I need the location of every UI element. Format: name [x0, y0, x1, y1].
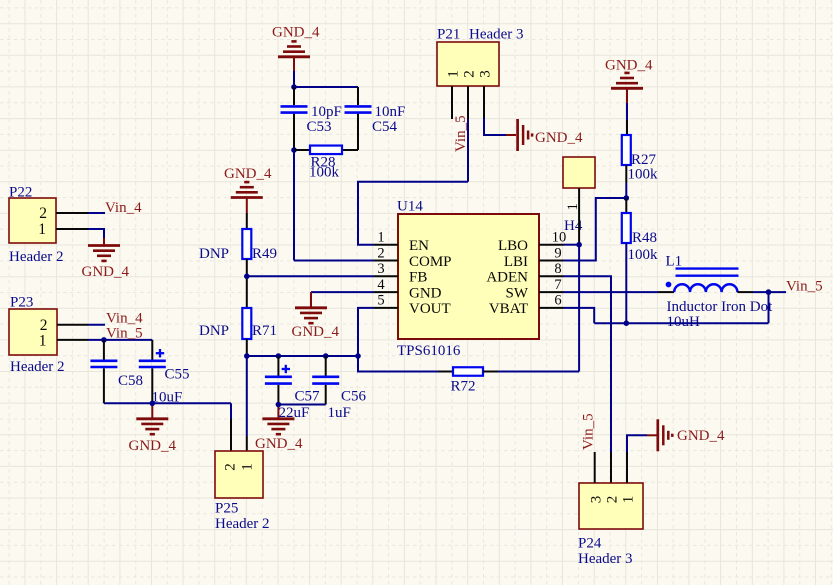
svg-text:1: 1 — [39, 333, 47, 350]
svg-text:100k: 100k — [628, 247, 659, 263]
svg-text:TPS61016: TPS61016 — [397, 343, 461, 359]
svg-text:C53: C53 — [307, 119, 332, 135]
svg-text:GND_4: GND_4 — [677, 428, 725, 444]
svg-text:FB: FB — [409, 270, 427, 286]
svg-text:1: 1 — [377, 230, 384, 246]
svg-text:C58: C58 — [118, 373, 143, 389]
svg-text:3: 3 — [588, 496, 604, 504]
svg-text:DNP: DNP — [199, 246, 229, 262]
svg-text:P25: P25 — [215, 500, 238, 516]
svg-text:8: 8 — [554, 261, 561, 277]
svg-text:GND_4: GND_4 — [292, 324, 340, 340]
svg-text:2: 2 — [39, 205, 47, 222]
svg-text:R72: R72 — [451, 378, 476, 394]
svg-text:1: 1 — [38, 221, 46, 238]
svg-text:Header 3: Header 3 — [578, 551, 633, 567]
svg-text:6: 6 — [554, 293, 561, 309]
svg-text:P21: P21 — [437, 27, 460, 43]
svg-text:Header 3: Header 3 — [469, 27, 524, 43]
svg-text:COMP: COMP — [409, 254, 452, 270]
svg-text:22uF: 22uF — [279, 405, 310, 421]
svg-text:2: 2 — [377, 245, 384, 261]
svg-text:GND_4: GND_4 — [224, 166, 272, 182]
svg-text:Vin_4: Vin_4 — [105, 200, 142, 216]
svg-text:C57: C57 — [295, 388, 321, 404]
svg-text:1: 1 — [621, 496, 637, 504]
svg-text:2: 2 — [462, 70, 478, 78]
svg-text:1: 1 — [240, 463, 256, 471]
svg-text:C54: C54 — [372, 119, 398, 135]
svg-text:DNP: DNP — [199, 323, 229, 339]
svg-text:Vin_5: Vin_5 — [786, 278, 823, 294]
svg-text:C55: C55 — [165, 366, 190, 382]
svg-text:LBI: LBI — [504, 254, 528, 270]
svg-text:GND_4: GND_4 — [129, 438, 177, 454]
svg-text:GND_4: GND_4 — [272, 24, 320, 40]
svg-text:R48: R48 — [632, 230, 657, 246]
svg-text:C56: C56 — [341, 388, 367, 404]
svg-text:Inductor Iron Dot: Inductor Iron Dot — [667, 299, 774, 315]
svg-text:R71: R71 — [252, 323, 277, 339]
svg-text:P22: P22 — [9, 185, 32, 201]
svg-text:100k: 100k — [309, 165, 340, 181]
svg-text:10uH: 10uH — [667, 314, 701, 330]
svg-text:Vin_5: Vin_5 — [106, 326, 143, 342]
svg-text:2: 2 — [605, 496, 621, 504]
svg-text:1uF: 1uF — [328, 405, 351, 421]
svg-text:P24: P24 — [578, 535, 602, 551]
svg-text:9: 9 — [554, 245, 561, 261]
svg-text:R49: R49 — [252, 246, 277, 262]
svg-text:ADEN: ADEN — [486, 270, 528, 286]
svg-text:GND_4: GND_4 — [255, 436, 303, 452]
svg-text:VBAT: VBAT — [489, 301, 528, 317]
svg-text:LBO: LBO — [498, 238, 528, 254]
svg-text:Header 2: Header 2 — [9, 249, 64, 265]
svg-text:100k: 100k — [628, 167, 659, 183]
svg-text:Header 2: Header 2 — [10, 359, 65, 375]
svg-text:Vin_4: Vin_4 — [106, 310, 143, 326]
svg-text:GND_4: GND_4 — [82, 264, 130, 280]
svg-text:5: 5 — [377, 293, 384, 309]
svg-text:SW: SW — [506, 285, 529, 301]
svg-text:P23: P23 — [10, 294, 33, 310]
svg-text:4: 4 — [377, 277, 385, 293]
svg-text:10nF: 10nF — [375, 104, 406, 120]
svg-text:GND_4: GND_4 — [535, 130, 583, 146]
svg-text:2: 2 — [223, 463, 239, 471]
svg-text:10pF: 10pF — [311, 104, 342, 120]
svg-text:GND: GND — [409, 285, 442, 301]
svg-text:1: 1 — [446, 70, 462, 78]
svg-text:Vin_5: Vin_5 — [453, 115, 469, 152]
svg-text:10: 10 — [552, 230, 567, 246]
svg-text:L1: L1 — [666, 254, 683, 270]
svg-text:Vin_5: Vin_5 — [581, 413, 597, 450]
svg-text:3: 3 — [478, 70, 494, 78]
svg-text:GND_4: GND_4 — [605, 57, 653, 73]
svg-text:Header 2: Header 2 — [215, 516, 270, 532]
svg-text:U14: U14 — [397, 199, 423, 215]
svg-text:2: 2 — [40, 317, 48, 334]
svg-text:3: 3 — [377, 261, 384, 277]
svg-text:7: 7 — [554, 277, 561, 293]
svg-text:EN: EN — [409, 238, 429, 254]
svg-text:VOUT: VOUT — [409, 301, 451, 317]
